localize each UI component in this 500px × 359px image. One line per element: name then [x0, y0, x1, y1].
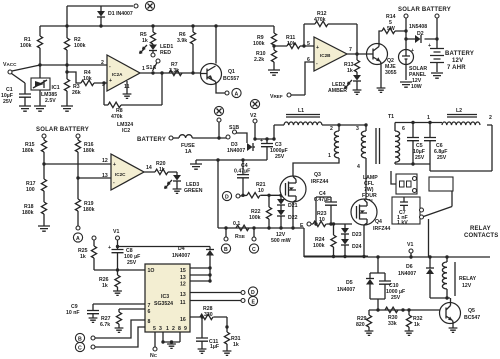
svg-text:1k: 1k [159, 167, 165, 173]
svg-text:SOLAR BATTERY: SOLAR BATTERY [36, 127, 89, 133]
resistor R19 [75, 178, 94, 226]
svg-text:1k: 1k [414, 322, 420, 328]
op-amp IC2B [307, 37, 352, 71]
svg-text:D4: D4 [178, 246, 185, 252]
svg-text:25V: 25V [415, 155, 425, 161]
svg-text:BATTERY: BATTERY [445, 51, 474, 57]
wire secondary top bus [395, 122, 442, 124]
svg-text:12: 12 [102, 158, 108, 164]
svg-text:11: 11 [180, 300, 186, 306]
wire pin to node E [190, 296, 258, 305]
ground under R18 [38, 226, 50, 231]
capacitor C5 [407, 123, 425, 165]
ground under R32 [405, 331, 414, 335]
svg-text:D5: D5 [346, 280, 353, 286]
svg-text:10: 10 [319, 217, 325, 223]
resistor R2 [64, 6, 85, 65]
svg-text:0.47µF: 0.47µF [234, 169, 250, 175]
svg-text:D6: D6 [406, 264, 413, 270]
svg-text:V1: V1 [113, 229, 119, 235]
capacitor C4 [234, 160, 250, 195]
svg-text:+: + [109, 78, 112, 84]
transistor Q3 IRFZ44 [280, 172, 328, 202]
svg-text:BC557: BC557 [223, 76, 239, 82]
ground under R26 [113, 291, 122, 295]
resistor R7 [169, 62, 182, 76]
wire pin to node D [190, 287, 258, 296]
svg-text:100k: 100k [20, 43, 32, 49]
resistor R31 [224, 317, 240, 351]
node battery terminal [137, 136, 173, 143]
svg-text:RELAY: RELAY [470, 226, 491, 232]
svg-text:SOLAR BATTERY: SOLAR BATTERY [398, 7, 451, 13]
svg-text:1N4007: 1N4007 [398, 271, 416, 277]
svg-text:RELAY: RELAY [459, 276, 477, 282]
svg-text:1: 1 [328, 153, 331, 159]
resistor R18 [22, 191, 47, 226]
zener D21 [277, 195, 298, 209]
wire pin6 to Vref [291, 62, 314, 95]
svg-text:+: + [260, 138, 263, 144]
capacitor C10 [370, 273, 405, 310]
svg-text:8: 8 [178, 326, 181, 332]
resistor R3 [64, 65, 80, 106]
fuse 1A [173, 135, 227, 155]
wire Vcc bus y=26 [40, 25, 274, 27]
T1 primary winding B [361, 125, 366, 199]
svg-text:25V: 25V [275, 154, 285, 160]
zener D22 [277, 205, 298, 228]
ground under LED2 [353, 90, 362, 94]
node Vcc terminal [3, 62, 40, 83]
node B circled [221, 228, 230, 253]
node V1 terminal left [113, 229, 120, 247]
ground pin11 of IC2A [123, 81, 132, 98]
transistor Q4 IRFZ44 [351, 199, 390, 232]
resistor R12 feedback [304, 11, 357, 54]
svg-text:1N4007: 1N4007 [172, 253, 190, 259]
svg-text:A: A [235, 92, 239, 98]
wire Q5 collector node [430, 297, 450, 299]
svg-text:25V: 25V [3, 99, 13, 105]
inductor L2 [427, 108, 492, 125]
wire sense row to V1 bus [303, 228, 305, 257]
label zener rating [271, 232, 291, 244]
relay contact switch [420, 191, 453, 257]
resistor R24 [313, 224, 336, 257]
svg-text:IC2B: IC2B [320, 53, 331, 58]
node Vref terminal [270, 93, 291, 100]
svg-text:IC1: IC1 [52, 85, 60, 91]
svg-text:12: 12 [180, 282, 186, 288]
svg-text:D24: D24 [352, 244, 362, 250]
diode D5 [337, 257, 385, 299]
svg-text:180k: 180k [83, 148, 95, 154]
T1 core [376, 128, 380, 164]
svg-text:3.9k: 3.9k [177, 38, 187, 44]
resistor R14 [379, 14, 406, 44]
svg-text:1A: 1A [185, 149, 192, 155]
svg-text:180k: 180k [22, 148, 34, 154]
capacitor C12 snubber [314, 191, 337, 224]
resistor R23 [313, 211, 352, 227]
relay coil 12V [442, 257, 476, 298]
ground under Q5 [449, 328, 458, 332]
svg-text:5W: 5W [387, 26, 395, 32]
wire base divider row [369, 310, 446, 314]
resistor R1 [20, 26, 43, 65]
svg-text:D23: D23 [352, 232, 362, 238]
svg-text:10 nF: 10 nF [66, 310, 80, 316]
ground on return rail [190, 164, 202, 169]
svg-text:SG3524: SG3524 [154, 301, 173, 307]
svg-text:7 AHR: 7 AHR [447, 65, 466, 71]
resistor R26 [99, 270, 120, 291]
capacitor C6 [424, 123, 447, 165]
svg-text:2: 2 [172, 326, 175, 332]
svg-text:13: 13 [180, 275, 186, 281]
svg-text:330: 330 [204, 312, 213, 318]
capacitor C7 box [392, 197, 420, 226]
node D circled gate input [222, 191, 247, 200]
svg-text:100: 100 [26, 187, 35, 193]
wire top bus to node X [67, 5, 133, 7]
LED2 amber [328, 72, 361, 94]
label LM324 IC2 [117, 122, 133, 134]
label RELAY CONTACTS [464, 226, 499, 239]
svg-text:12V: 12V [462, 283, 472, 289]
svg-text:IC3: IC3 [161, 294, 169, 300]
svg-text:25V: 25V [127, 260, 137, 266]
svg-text:4: 4 [357, 164, 360, 170]
wire return rail to ground [196, 160, 267, 164]
svg-text:3: 3 [356, 126, 359, 132]
node solar battery terminal 2 [435, 14, 439, 48]
svg-text:16: 16 [180, 317, 186, 323]
diode D1 [97, 6, 133, 26]
svg-text:C: C [252, 247, 256, 253]
svg-text:Q3: Q3 [314, 172, 321, 178]
switch S1B [226, 125, 247, 143]
resistor R32 [406, 310, 422, 331]
svg-text:Q5: Q5 [468, 308, 475, 314]
svg-text:IC2C: IC2C [115, 172, 126, 177]
svg-text:2: 2 [330, 126, 333, 132]
node A terminal top [225, 88, 241, 97]
svg-text:CONTACTS: CONTACTS [464, 233, 499, 239]
svg-text:S1B: S1B [229, 125, 239, 131]
junction dots on Vcc bus [65, 24, 68, 27]
svg-text:2.2k: 2.2k [254, 57, 264, 63]
svg-text:B: B [78, 337, 82, 343]
node X circled mid [214, 106, 223, 138]
svg-text:Q4: Q4 [375, 219, 382, 225]
svg-text:1O: 1O [148, 268, 155, 274]
node C circled [249, 228, 258, 253]
svg-text:13: 13 [180, 292, 186, 298]
ground under R29 [365, 331, 374, 335]
svg-text:5: 5 [153, 326, 156, 332]
svg-text:100k: 100k [313, 243, 325, 249]
wire secondary bottom bus [395, 125, 492, 171]
svg-text:BC547: BC547 [464, 315, 480, 321]
svg-text:1 kV: 1 kV [397, 220, 408, 226]
svg-text:V2: V2 [250, 113, 256, 119]
svg-text:L2: L2 [456, 108, 462, 114]
capacitor C9 [66, 304, 145, 318]
svg-text:100k: 100k [74, 43, 86, 49]
svg-text:+: + [411, 48, 414, 54]
svg-text:25V: 25V [437, 155, 447, 161]
wire Q4 source [363, 225, 365, 257]
svg-text:470k: 470k [111, 114, 123, 120]
svg-text:1µF: 1µF [210, 344, 219, 350]
diode D2 1N5408 [406, 24, 437, 43]
resistor R21 [247, 182, 282, 198]
wire pins 15 13 12 to D4 [190, 268, 210, 281]
resistor R10 [254, 45, 277, 70]
capacitor C8 [108, 245, 140, 270]
svg-text:180k: 180k [22, 210, 34, 216]
svg-text:10W: 10W [411, 84, 422, 90]
resistor R6 [177, 26, 196, 73]
svg-text:V1: V1 [407, 242, 413, 248]
ground under IC1 [34, 106, 46, 111]
svg-text:33k: 33k [388, 321, 397, 327]
inductor L1 [274, 108, 366, 139]
ground under R27 [115, 328, 124, 332]
svg-text:10k: 10k [83, 76, 92, 82]
wire V1 feed to D4 [118, 246, 211, 248]
wire IC2B output [347, 53, 367, 55]
svg-text:26k: 26k [72, 90, 81, 96]
svg-text:Q1: Q1 [228, 69, 235, 75]
svg-text:12V: 12V [452, 58, 463, 64]
node A terminal bottom [73, 226, 82, 242]
transistor Q2 MJE3055 [367, 44, 397, 89]
ground under LED3 [173, 189, 182, 193]
svg-text:A: A [76, 236, 80, 242]
wire Q3 source [292, 202, 294, 228]
svg-text:0.47µF: 0.47µF [314, 197, 330, 203]
node terminal R15 top [42, 134, 46, 140]
svg-text:+: + [108, 245, 111, 251]
svg-text:15: 15 [180, 268, 186, 274]
LED3 green [165, 172, 203, 194]
resistor R28 [190, 306, 227, 320]
svg-text:IRFZ44: IRFZ44 [311, 179, 328, 185]
wire current sense row [218, 160, 304, 228]
svg-text:3: 3 [159, 326, 162, 332]
resistor R9 [253, 26, 277, 47]
wire loop to relay contact [429, 177, 453, 191]
ground under C1 [19, 106, 31, 111]
ground under R3 [61, 106, 73, 111]
node V2 terminal [250, 99, 260, 139]
transistor Q1 BC557 [201, 26, 240, 93]
svg-text:+: + [428, 43, 431, 49]
T1 primary winding A [293, 125, 339, 176]
svg-text:2: 2 [101, 60, 104, 66]
lamp CFL 7W four-pin [362, 174, 417, 205]
svg-text:BATTERY: BATTERY [137, 137, 166, 143]
svg-text:1k: 1k [142, 38, 148, 44]
svg-text:1k: 1k [80, 254, 86, 260]
capacitor C11 [196, 317, 219, 350]
svg-text:10k: 10k [287, 41, 296, 47]
svg-text:RED: RED [160, 50, 171, 56]
resistor R11 [274, 35, 314, 49]
node X terminal top [134, 4, 138, 8]
wire pin2 row [40, 64, 107, 66]
svg-text:9: 9 [184, 326, 187, 332]
svg-text:1k: 1k [233, 342, 239, 348]
svg-text:1k: 1k [347, 68, 353, 74]
wire pin13 row [78, 177, 111, 179]
solar panel symbol [399, 48, 428, 90]
node X circled [145, 1, 154, 10]
svg-text:820: 820 [356, 322, 365, 328]
resistor R5 [140, 26, 156, 44]
op-amp IC2C [102, 154, 152, 190]
resistor R15 [22, 140, 47, 164]
svg-text:25V: 25V [391, 295, 401, 301]
zener D24 [341, 234, 362, 257]
capacitor C3 [260, 138, 288, 160]
ground under C9 [89, 318, 98, 322]
capacitor C1 [1, 83, 31, 106]
node E gate input [300, 222, 313, 229]
resistor RSENSE 0.1 [233, 221, 249, 240]
svg-text:1N4007: 1N4007 [227, 148, 245, 154]
svg-text:AMBER: AMBER [328, 88, 347, 94]
ground pins stub [161, 332, 180, 348]
svg-text:6: 6 [402, 126, 405, 132]
svg-text:T1: T1 [388, 114, 394, 120]
transformer T1 [328, 114, 405, 170]
diode D3 [227, 142, 255, 154]
svg-text:B: B [224, 247, 228, 253]
svg-text:-: - [113, 180, 115, 186]
svg-text:S1A: S1A [146, 65, 156, 71]
resistor R29 [356, 310, 372, 331]
svg-text:7: 7 [349, 47, 352, 53]
svg-text:E: E [300, 223, 304, 229]
svg-text:5: 5 [307, 41, 310, 47]
resistor R25 [78, 236, 145, 270]
wire battery plus rail [255, 138, 274, 140]
pin NC stub [150, 332, 158, 359]
svg-text:1: 1 [142, 66, 145, 72]
svg-text:2: 2 [489, 115, 492, 121]
wire lamp to secondary [391, 171, 396, 184]
ground under battery [431, 73, 443, 78]
svg-text:2.5V: 2.5V [45, 98, 56, 104]
svg-text:D: D [225, 195, 229, 201]
ground under R10 [268, 70, 280, 75]
svg-text:1: 1 [427, 115, 430, 121]
svg-text:3.3k: 3.3k [169, 68, 179, 74]
node solar battery terminal 1 [404, 14, 408, 49]
zener D23 [341, 224, 362, 238]
svg-text:E: E [252, 300, 256, 306]
diode D6 flyback [398, 257, 434, 298]
svg-text:+: + [113, 162, 116, 168]
svg-text:6.7k: 6.7k [100, 322, 110, 328]
svg-text:0.1: 0.1 [233, 221, 240, 227]
node V1 terminal right [407, 242, 413, 257]
transistor Q5 BC547 [440, 298, 481, 328]
svg-text:D2: D2 [417, 31, 424, 37]
svg-text:GREEN: GREEN [184, 188, 203, 194]
T1 secondary winding [395, 123, 400, 165]
svg-text:1k: 1k [102, 283, 108, 289]
svg-text:10: 10 [258, 188, 264, 194]
resistor R22 [249, 195, 272, 228]
resistor R30 [385, 307, 398, 327]
resistor R27 6.7k [100, 309, 145, 328]
svg-text:100k: 100k [249, 215, 261, 221]
svg-text:IC2: IC2 [122, 128, 130, 134]
ground under solar panel [400, 82, 412, 87]
resistor R17 [26, 164, 47, 193]
svg-text:-: - [316, 61, 318, 67]
svg-text:8: 8 [148, 319, 151, 325]
wire IC2A output row [140, 72, 201, 74]
op-amp IC2A [101, 55, 145, 91]
LED1 red [140, 44, 174, 56]
wire pin12 row [44, 163, 111, 165]
wire to node C bottom [75, 327, 145, 352]
svg-text:IC2A: IC2A [112, 72, 123, 77]
switch S1A [146, 51, 160, 72]
resistor R20 [144, 161, 177, 175]
svg-text:100k: 100k [253, 41, 265, 47]
resistor R4 [67, 70, 107, 86]
resistor R8 feedback [104, 73, 162, 120]
svg-text:D: D [251, 290, 255, 296]
svg-text:+: + [316, 45, 319, 51]
svg-text:180k: 180k [83, 207, 95, 213]
IC3 SG3524 [145, 264, 190, 332]
ground under C11 [198, 349, 207, 353]
ground under Q2 emitter [377, 88, 386, 92]
svg-text:-: - [109, 64, 111, 70]
svg-text:14: 14 [146, 165, 152, 171]
svg-text:D1 IN4007: D1 IN4007 [108, 11, 133, 17]
svg-text:IRFZ44: IRFZ44 [373, 226, 390, 232]
svg-text:L1: L1 [298, 108, 304, 114]
shunt reference IC1 LM385 [31, 65, 60, 106]
svg-text:1N5408: 1N5408 [409, 24, 427, 30]
resistor R13 [344, 54, 360, 74]
svg-text:C: C [78, 346, 82, 352]
node terminal R16 top [76, 134, 80, 140]
svg-text:470k: 470k [314, 17, 326, 23]
ground under R31 [223, 351, 232, 355]
svg-text:13: 13 [102, 173, 108, 179]
wire V1 bus right [368, 256, 490, 258]
wire to node B bottom [75, 320, 145, 343]
svg-text:3055: 3055 [385, 70, 397, 76]
battery 12V 7AHR [428, 43, 474, 72]
diode D4 [172, 246, 214, 281]
svg-text:6: 6 [148, 309, 151, 315]
resistor R16 [75, 140, 94, 178]
svg-text:1: 1 [166, 326, 169, 332]
wire zener common bar [304, 256, 368, 258]
svg-text:500 mW: 500 mW [271, 238, 291, 244]
